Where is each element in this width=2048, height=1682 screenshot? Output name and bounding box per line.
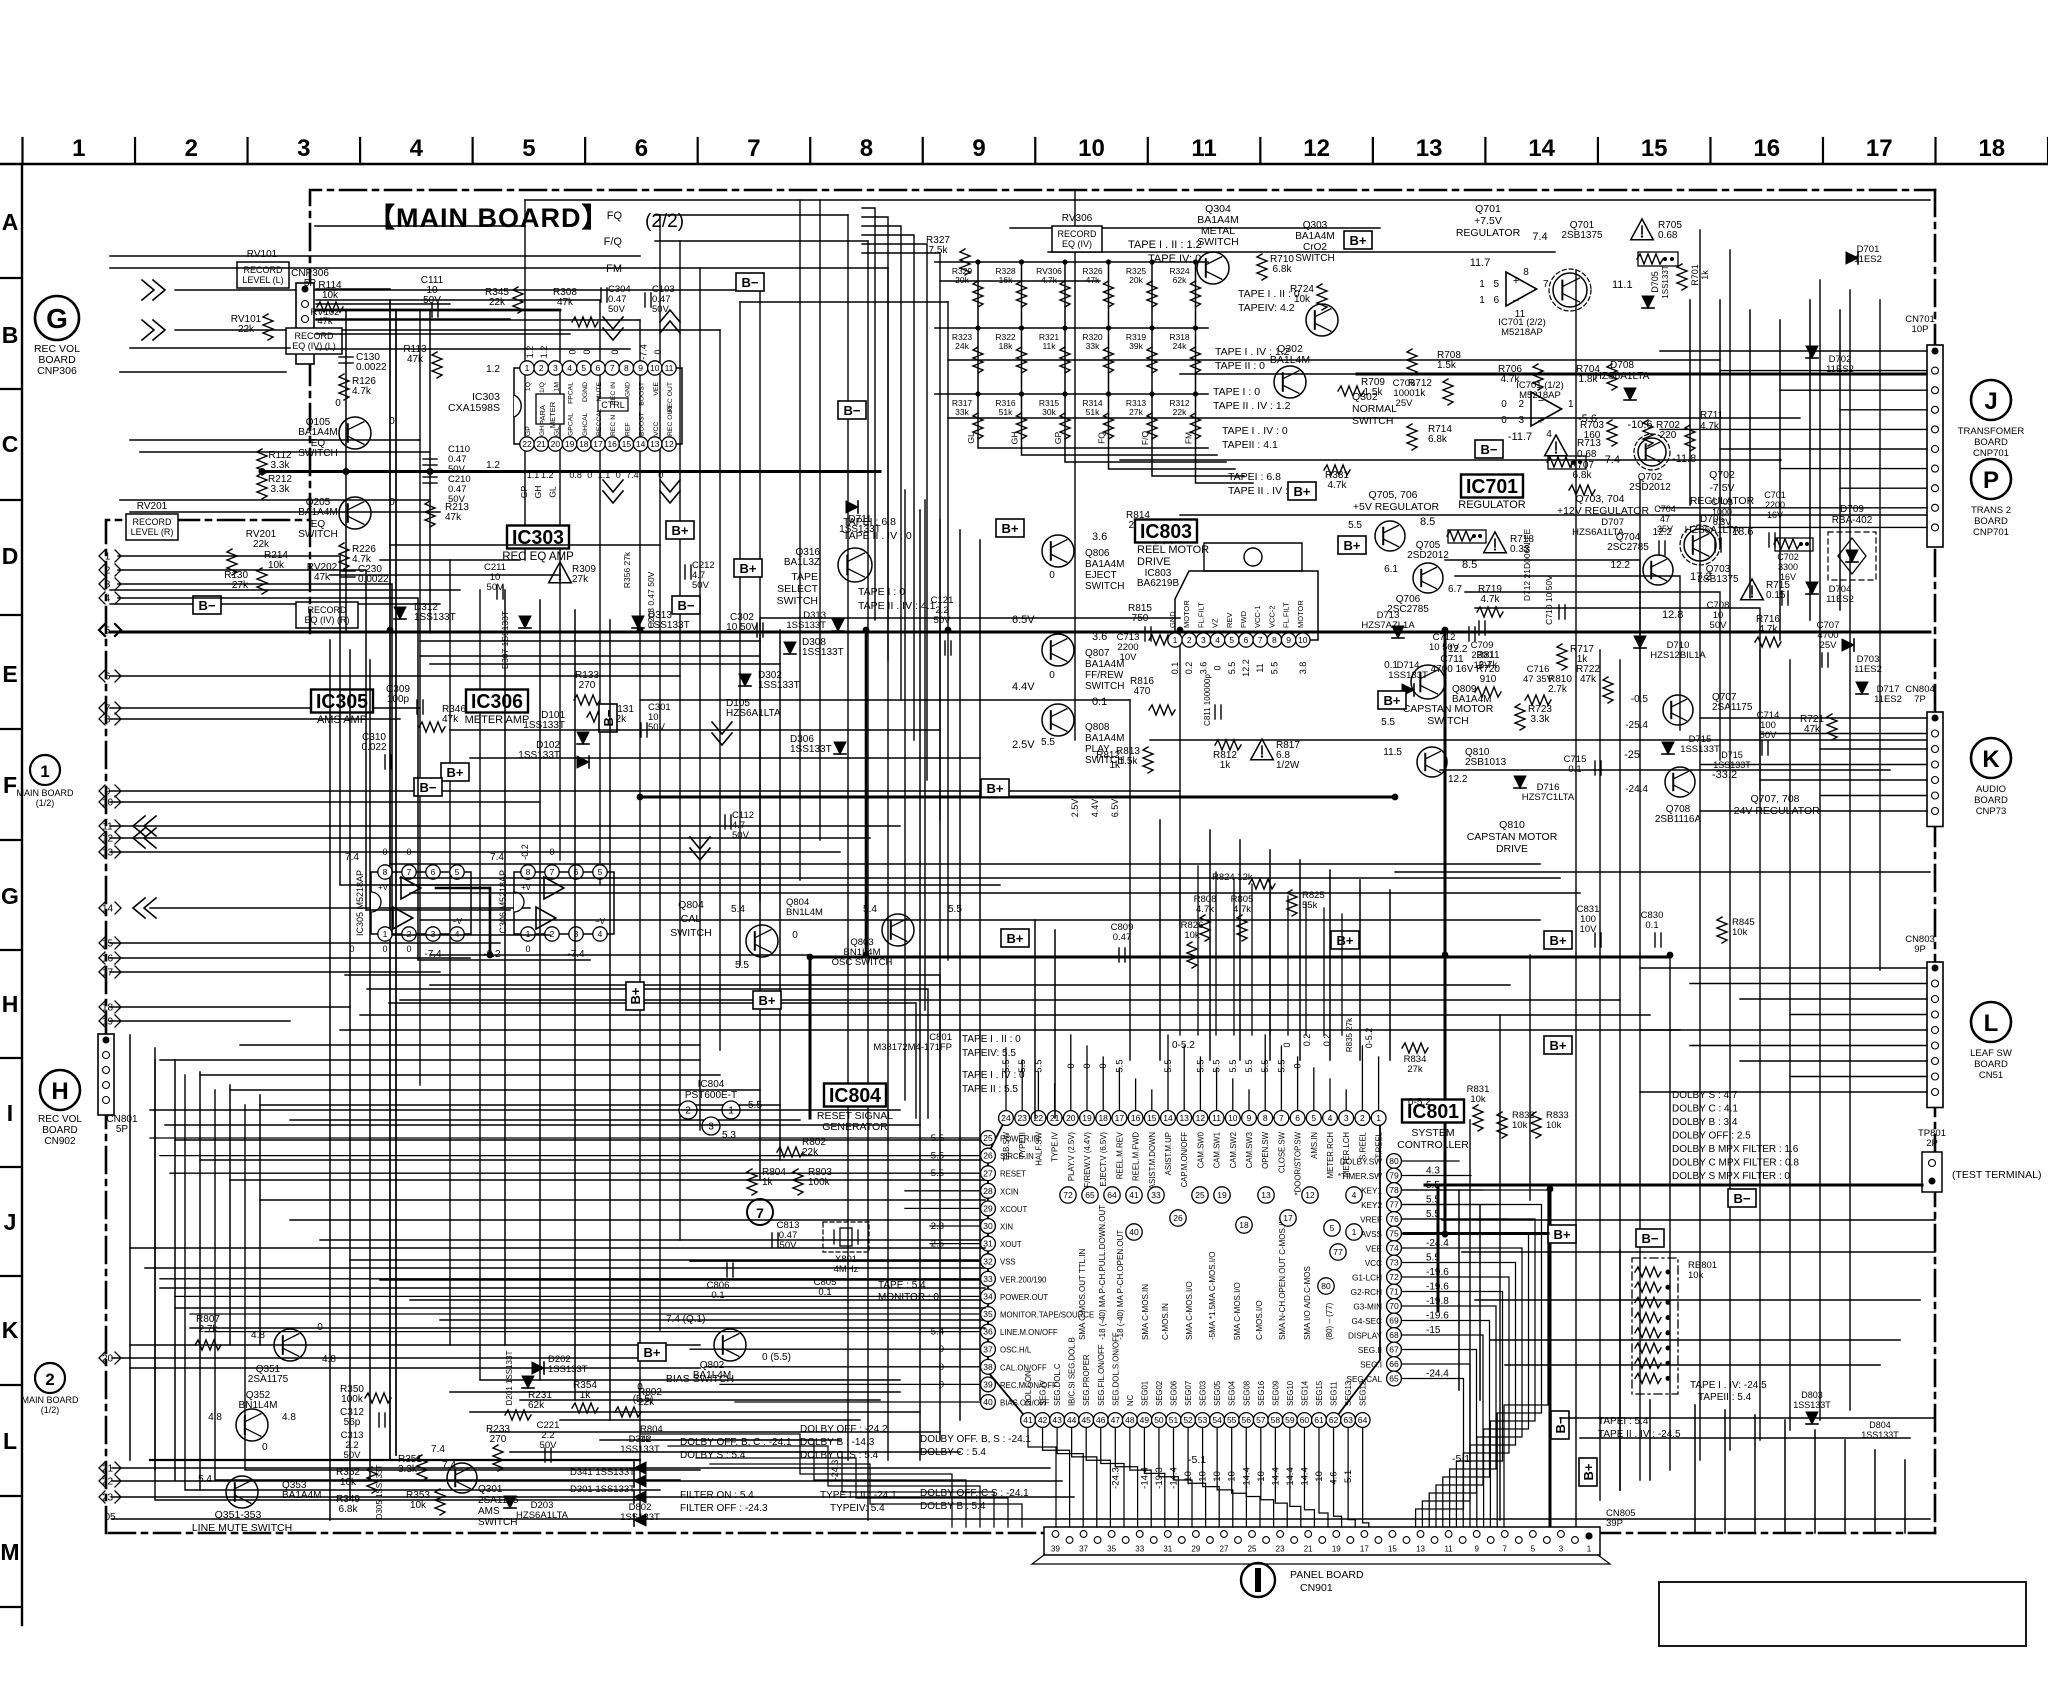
svg-text:B+: B+	[628, 987, 643, 1004]
svg-text:1: 1	[1479, 295, 1485, 306]
svg-text:G: G	[46, 303, 68, 334]
svg-text:GPCAL: GPCAL	[568, 413, 575, 436]
svg-text:CAPSTAN MOTOR: CAPSTAN MOTOR	[1467, 831, 1558, 843]
wire	[140, 451, 430, 453]
board ref 2 circle	[35, 1363, 65, 1393]
svg-text:1Q: 1Q	[525, 382, 532, 391]
svg-text:-7.4: -7.4	[1601, 454, 1620, 466]
svg-text:11.1: 11.1	[1612, 279, 1633, 291]
svg-text:0.1: 0.1	[711, 1290, 724, 1301]
wire	[1599, 650, 1601, 1500]
svg-text:−V: −V	[452, 917, 463, 926]
svg-text:1: 1	[728, 1106, 734, 1117]
wire grid column	[978, 262, 1208, 448]
svg-text:VCC-1: VCC-1	[1253, 605, 1262, 628]
svg-text:0: 0	[1049, 570, 1055, 581]
wire CN902 route	[215, 1090, 680, 1480]
B+ box right mid	[1331, 931, 1359, 949]
svg-text:-5.1: -5.1	[1188, 1454, 1206, 1466]
svg-text:12: 12	[1196, 1113, 1206, 1123]
wire IC801 right pin 74 route	[1402, 1248, 1522, 1527]
svg-text:68: 68	[1389, 1330, 1399, 1340]
ruler tick	[0, 1057, 22, 1059]
svg-text:3: 3	[1559, 1545, 1564, 1554]
svg-text:5MA C-MOS.I/O: 5MA C-MOS.I/O	[1233, 1282, 1242, 1340]
svg-text:TAPE I . IV: -24.5: TAPE I . IV: -24.5	[1690, 1380, 1767, 1391]
svg-text:R713: R713	[1577, 438, 1601, 449]
node <7>	[99, 702, 105, 714]
wire node 3 route	[118, 584, 550, 935]
svg-text:21: 21	[1304, 1545, 1313, 1554]
wire	[430, 663, 780, 665]
wire	[110, 790, 1180, 792]
svg-text:2.5V: 2.5V	[1012, 739, 1035, 751]
svg-text:POWER.OUT: POWER.OUT	[1000, 1293, 1048, 1302]
wire CN803 lead	[1690, 983, 1927, 985]
wire IC801 right pin 73 route	[1402, 1263, 1516, 1528]
svg-text:GND: GND	[1168, 611, 1177, 628]
board ref H	[40, 1070, 80, 1110]
svg-text:VCC: VCC	[653, 422, 660, 436]
wire	[110, 631, 1930, 634]
wire IC801 top feed	[1251, 884, 1253, 1035]
svg-text:DOLBY B : 3.4: DOLBY B : 3.4	[1672, 1117, 1738, 1128]
wire AVSS bold	[1404, 1232, 1548, 1235]
svg-text:(2/2): (2/2)	[645, 211, 684, 232]
wire IC801 pin 52 to CN805	[1188, 1428, 1206, 1527]
node <15>	[99, 937, 105, 949]
wire	[1619, 660, 1621, 1490]
resistor R817 warn	[1251, 739, 1274, 760]
svg-text:5.5: 5.5	[1195, 1059, 1206, 1072]
wire	[175, 1139, 985, 1141]
svg-text:CNP701: CNP701	[1973, 527, 2009, 538]
svg-text:A: A	[2, 209, 19, 235]
svg-text:IC305: IC305	[316, 691, 368, 713]
svg-text:3.6: 3.6	[1198, 662, 1208, 675]
svg-text:5.5: 5.5	[1114, 1059, 1125, 1072]
svg-text:1SS133T: 1SS133T	[548, 1364, 588, 1375]
wire	[479, 590, 481, 1380]
wire	[959, 530, 961, 1420]
svg-text:Q804: Q804	[678, 899, 704, 911]
main board border left stub	[309, 520, 311, 633]
wire IC801 left pin lead	[150, 1137, 981, 1139]
ruler tick	[1147, 138, 1149, 164]
svg-text:DOLBY OFF. B, C : -24.1: DOLBY OFF. B, C : -24.1	[680, 1437, 792, 1448]
wire	[440, 1319, 985, 1321]
wire	[1357, 373, 1930, 376]
svg-text:TAPE I . II : 1.2: TAPE I . II : 1.2	[1128, 239, 1202, 251]
wire	[315, 225, 525, 227]
wire CN902 route	[245, 1105, 700, 1470]
wire	[504, 590, 506, 1345]
svg-text:EJECT: EJECT	[1085, 570, 1117, 581]
svg-text:1: 1	[383, 929, 388, 939]
svg-text:18k: 18k	[999, 341, 1013, 351]
wire	[410, 1299, 985, 1301]
wire IC801 right pin lead	[1402, 1189, 1483, 1191]
svg-text:4: 4	[105, 594, 111, 605]
svg-text:30: 30	[983, 1221, 993, 1231]
svg-text:27: 27	[1220, 1545, 1229, 1554]
R718 fusible	[1448, 530, 1486, 543]
svg-text:PANEL BOARD: PANEL BOARD	[1290, 1569, 1364, 1581]
svg-text:0.1: 0.1	[1645, 920, 1658, 931]
wire stair to CN805	[668, 1446, 980, 1527]
svg-text:11: 11	[102, 822, 113, 833]
wire	[230, 1089, 760, 1091]
wire	[1575, 270, 1577, 1530]
svg-text:6.5V: 6.5V	[1012, 614, 1035, 626]
svg-text:TAPEII : 5.4: TAPEII : 5.4	[1698, 1392, 1752, 1403]
svg-text:47k: 47k	[317, 316, 333, 327]
wire	[1150, 739, 1930, 741]
wire	[1442, 1219, 1935, 1221]
opamp IC701 2/2	[1506, 272, 1537, 306]
svg-text:CLOSE.SW: CLOSE.SW	[1277, 1131, 1286, 1173]
svg-text:55: 55	[1227, 1415, 1237, 1425]
svg-text:0.1: 0.1	[1092, 696, 1107, 708]
svg-text:VEE: VEE	[1366, 1245, 1383, 1254]
wire IC801 left pin lead	[160, 1278, 981, 1280]
junction	[487, 952, 494, 959]
svg-text:62k: 62k	[1173, 275, 1187, 285]
svg-text:B: B	[2, 322, 19, 348]
wire	[1784, 1420, 1786, 1533]
wire IC801 top feed	[1305, 902, 1307, 1035]
IC303 package body	[514, 368, 682, 444]
B+ box Q701	[1344, 231, 1372, 249]
svg-text:7.5k: 7.5k	[929, 245, 949, 256]
svg-text:TAPE II . IV : 4.1: TAPE II . IV : 4.1	[858, 600, 936, 612]
wire IC801 right pin 69 route	[1402, 1321, 1490, 1528]
wire IC801 top pin stub	[1151, 1090, 1153, 1111]
svg-text:1M: 1M	[553, 382, 560, 392]
wire IC801 pin 59 to CN805	[1290, 1428, 1301, 1527]
transistor Q205 EQ switch	[339, 497, 371, 529]
svg-text:XOUT: XOUT	[1000, 1240, 1022, 1249]
wire IC801 top feed	[1341, 914, 1343, 1035]
wire	[1689, 300, 1691, 505]
svg-text:SWITCH: SWITCH	[670, 927, 711, 939]
svg-text:−: −	[1513, 295, 1519, 307]
svg-text:-24.4: -24.4	[1426, 1369, 1449, 1380]
wire	[1699, 230, 1701, 1460]
svg-text:8.5: 8.5	[1462, 559, 1477, 571]
wire CN804 lead	[1760, 733, 1927, 735]
svg-text:18: 18	[579, 439, 589, 449]
svg-text:7.4: 7.4	[431, 1444, 445, 1455]
svg-text:DOLBY OFF : 2.5: DOLBY OFF : 2.5	[1672, 1131, 1751, 1142]
svg-text:VREF: VREF	[1360, 1216, 1382, 1225]
svg-text:19: 19	[1332, 1545, 1341, 1554]
ruler tick	[1709, 138, 1711, 164]
svg-text:54: 54	[1212, 1415, 1222, 1425]
main board border right	[1934, 190, 1937, 1533]
ruler tick	[1484, 138, 1486, 164]
svg-text:100p: 100p	[387, 694, 410, 705]
wire	[390, 863, 1540, 865]
svg-text:TRANSFOMER: TRANSFOMER	[1958, 426, 2025, 437]
wire	[524, 200, 526, 560]
svg-text:SWITCH: SWITCH	[1197, 236, 1238, 248]
wire TP801 bold	[1425, 1184, 1922, 1187]
wire	[1444, 630, 1447, 1236]
IC801 inner circled pin refs	[1060, 1187, 1076, 1203]
svg-text:CAPSTAN MOTOR: CAPSTAN MOTOR	[1403, 703, 1494, 715]
wire bus rows G-H	[345, 975, 940, 1118]
svg-text:SEG.II: SEG.II	[1358, 1346, 1382, 1355]
svg-text:Q351-353: Q351-353	[215, 1509, 262, 1521]
svg-text:15: 15	[622, 439, 632, 449]
svg-text:20: 20	[551, 439, 561, 449]
svg-text:DOLBY B : -14.3: DOLBY B : -14.3	[800, 1437, 875, 1448]
svg-text:2SD2012: 2SD2012	[1629, 482, 1671, 493]
wire	[887, 268, 889, 1460]
wire	[1120, 459, 1781, 461]
svg-text:MAIN BOARD: MAIN BOARD	[16, 788, 74, 798]
svg-text:BOARD: BOARD	[42, 1125, 78, 1136]
svg-text:1: 1	[1376, 1113, 1381, 1123]
wire	[110, 707, 420, 709]
wire IC801 top feed	[1197, 866, 1199, 1035]
svg-text:BOOST: BOOST	[639, 412, 646, 436]
svg-text:GENERATOR: GENERATOR	[822, 1121, 888, 1133]
svg-text:SEG.IV: SEG.IV	[1039, 1379, 1048, 1406]
svg-text:D705: D705	[1650, 271, 1660, 293]
IC701 label box	[1461, 475, 1523, 498]
svg-text:0.1: 0.1	[1568, 764, 1581, 775]
svg-text:27: 27	[983, 1168, 993, 1178]
chevron near C112	[690, 837, 710, 849]
wire	[290, 1219, 985, 1221]
svg-text:5: 5	[1493, 279, 1499, 290]
svg-text:OSC.H/L: OSC.H/L	[1000, 1346, 1032, 1355]
svg-text:-0.2: -0.2	[520, 844, 530, 860]
junction	[863, 627, 870, 634]
svg-text:0: 0	[1213, 665, 1223, 670]
wire	[130, 511, 440, 513]
svg-text:0.2: 0.2	[1302, 1034, 1312, 1047]
svg-text:BA1A4M: BA1A4M	[1085, 733, 1124, 744]
wire IC801 left pin lead	[930, 1243, 981, 1245]
wire	[110, 589, 460, 591]
svg-text:BOOST: BOOST	[639, 382, 646, 406]
wire stair to CN805	[710, 1464, 1022, 1527]
svg-text:3.6: 3.6	[1092, 631, 1107, 643]
svg-text:62: 62	[1329, 1415, 1339, 1425]
svg-text:REV: REV	[1225, 613, 1234, 628]
svg-text:0: 0	[382, 944, 387, 954]
svg-text:61: 61	[1314, 1415, 1324, 1425]
wire	[360, 1014, 1650, 1016]
wire IC801 right pin lead	[1402, 1160, 1459, 1162]
node <13>	[99, 846, 105, 858]
svg-text:-5MA *1.5MA C-MOS.I/O: -5MA *1.5MA C-MOS.I/O	[1208, 1252, 1217, 1340]
svg-text:2.5V: 2.5V	[1070, 799, 1080, 818]
ruler tick	[1822, 138, 1824, 164]
svg-text:4.7k: 4.7k	[1233, 904, 1251, 915]
svg-text:4.7k: 4.7k	[1041, 275, 1058, 285]
svg-text:23: 23	[102, 1493, 114, 1504]
wire	[1619, 1250, 1621, 1490]
svg-text:0: 0	[1082, 1063, 1093, 1068]
diode D302	[739, 674, 751, 686]
wire	[450, 1391, 900, 1393]
svg-text:0.47: 0.47	[1113, 932, 1132, 943]
svg-text:KEY1: KEY1	[1361, 1187, 1382, 1196]
svg-text:50: 50	[1154, 1415, 1164, 1425]
wire	[130, 439, 420, 441]
svg-text:Q807: Q807	[1085, 648, 1110, 659]
svg-text:8: 8	[383, 867, 388, 877]
IC303 top pins	[520, 361, 534, 375]
svg-text:REC EQ AMP: REC EQ AMP	[502, 551, 574, 563]
svg-text:IC804: IC804	[698, 1079, 725, 1090]
wire IC801 top pin stub	[1102, 1057, 1104, 1111]
svg-text:IC803: IC803	[1140, 521, 1192, 543]
wire IC801 pin 43 to CN805	[1057, 1428, 1083, 1527]
ruler tick	[472, 138, 474, 164]
wire	[160, 1059, 700, 1061]
wire	[599, 300, 601, 885]
svg-text:-33.2: -33.2	[1712, 769, 1737, 781]
svg-text:ASIST.M.UP: ASIST.M.UP	[1164, 1132, 1173, 1175]
svg-text:53: 53	[1198, 1415, 1208, 1425]
wire top bus drop	[862, 253, 940, 820]
wire	[1849, 290, 1851, 1410]
svg-text:BN1L4M: BN1L4M	[786, 907, 823, 918]
wire	[1395, 871, 1930, 873]
svg-text:XIN: XIN	[1000, 1223, 1013, 1232]
wire bold row L	[150, 1459, 640, 1461]
transistor Q703 dashed	[1684, 529, 1716, 561]
wire	[574, 610, 576, 1400]
ruler tick	[0, 1495, 22, 1497]
svg-text:47k: 47k	[557, 297, 574, 308]
svg-text:B+: B+	[1344, 538, 1361, 553]
svg-text:-7.4: -7.4	[424, 949, 442, 960]
wire	[740, 301, 948, 303]
svg-text:1SS133T: 1SS133T	[648, 620, 690, 631]
svg-text:37: 37	[1079, 1545, 1088, 1554]
svg-text:0: 0	[582, 349, 592, 354]
svg-text:REEL MOTOR: REEL MOTOR	[1137, 544, 1209, 556]
wire IC801 right pin 65 route	[1402, 1379, 1464, 1528]
wire	[948, 417, 1800, 419]
wire	[819, 200, 821, 840]
svg-text:2: 2	[1360, 1113, 1365, 1123]
B+ boxes row H	[1001, 929, 1029, 947]
svg-text:10: 10	[1078, 135, 1105, 162]
svg-text:DGND: DGND	[582, 382, 589, 402]
wire	[1819, 280, 1821, 1420]
svg-text:SWITCH: SWITCH	[777, 595, 818, 607]
svg-text:17: 17	[1115, 1113, 1125, 1123]
ruler tick	[1934, 138, 1936, 164]
svg-text:G2-RCH: G2-RCH	[1351, 1288, 1382, 1297]
svg-text:B+: B+	[447, 765, 464, 780]
svg-text:P: P	[1983, 467, 1999, 494]
wire	[130, 1247, 985, 1249]
svg-text:B−: B−	[1481, 442, 1498, 457]
svg-text:3.3k: 3.3k	[271, 460, 291, 471]
wire	[316, 319, 640, 321]
wire	[480, 1379, 900, 1381]
connector CN804	[1927, 712, 1943, 827]
svg-text:FILTER ON : 5.4: FILTER ON : 5.4	[680, 1490, 754, 1501]
svg-text:1SS133T: 1SS133T	[414, 612, 456, 623]
svg-text:TAPE II : 5.5: TAPE II : 5.5	[962, 1084, 1018, 1095]
wire	[350, 1259, 985, 1261]
svg-text:DOLBY B : 5.4: DOLBY B : 5.4	[920, 1501, 986, 1512]
wire IC801 pin 51 to CN805	[1174, 1428, 1193, 1527]
svg-text:B+: B+	[1554, 1227, 1571, 1242]
wire stair to CN805	[682, 1452, 994, 1527]
svg-text:4: 4	[567, 363, 572, 373]
svg-text:7: 7	[1543, 279, 1549, 290]
svg-text:(80) – (77): (80) – (77)	[1325, 1302, 1334, 1340]
B- box 1640	[1636, 1229, 1664, 1247]
wire	[110, 675, 680, 677]
ruler tick	[0, 839, 22, 841]
wire CN804 lead	[1760, 779, 1927, 781]
wire IC801 pin 58 to CN805	[1275, 1428, 1287, 1527]
wire	[940, 280, 1100, 282]
wire	[450, 729, 940, 731]
svg-text:26: 26	[983, 1151, 993, 1161]
svg-text:SWITCH: SWITCH	[1085, 581, 1124, 592]
svg-text:0: 0	[389, 416, 395, 427]
svg-text:11.7: 11.7	[1470, 257, 1491, 269]
svg-text:CAL: CAL	[681, 913, 702, 925]
wire	[600, 1439, 840, 1441]
svg-text:5.5: 5.5	[1001, 1059, 1012, 1072]
wire IC801 top feed	[1215, 872, 1217, 1035]
svg-text:Q705, 706: Q705, 706	[1368, 489, 1417, 501]
B+ box bias	[638, 1343, 666, 1361]
chevron arrow row G	[144, 898, 156, 918]
svg-text:DOLBY C : 4.1: DOLBY C : 4.1	[1672, 1104, 1738, 1115]
wire	[1789, 660, 1791, 1430]
svg-text:10k: 10k	[340, 1477, 357, 1488]
svg-text:VZ: VZ	[1211, 618, 1220, 628]
svg-text:43: 43	[1052, 1415, 1062, 1425]
svg-text:25: 25	[1248, 1545, 1257, 1554]
svg-text:0: 0	[382, 847, 387, 857]
svg-text:BIAS SWITCH: BIAS SWITCH	[666, 1373, 734, 1385]
svg-text:5: 5	[1229, 635, 1234, 645]
svg-text:LEVEL (L): LEVEL (L)	[242, 275, 283, 285]
svg-text:TAPE I . IV : 1.2: TAPE I . IV : 1.2	[1215, 346, 1290, 358]
wire	[130, 1344, 700, 1346]
svg-text:ASIST.M.DOWN: ASIST.M.DOWN	[1148, 1132, 1157, 1189]
node <2>	[99, 564, 105, 576]
wire IC801 pin 47 to CN805	[1115, 1428, 1137, 1527]
svg-text:F/Q: F/Q	[1140, 431, 1150, 446]
wire	[1839, 310, 1841, 610]
svg-text:11: 11	[1255, 663, 1265, 672]
svg-text:7: 7	[756, 1205, 764, 1221]
svg-text:65: 65	[1389, 1374, 1399, 1384]
wire	[1759, 650, 1761, 1440]
wire bus rows G-H	[367, 989, 928, 1118]
svg-text:46: 46	[1096, 1415, 1106, 1425]
svg-text:SMA C-MOS.IN: SMA C-MOS.IN	[1141, 1284, 1150, 1340]
svg-text:5.4: 5.4	[731, 904, 745, 915]
wire	[1048, 251, 1555, 253]
